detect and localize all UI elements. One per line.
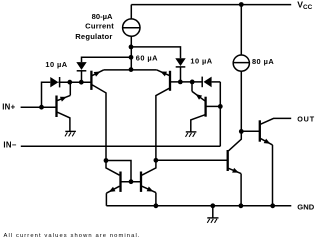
transistor Q8 base bar [259, 120, 261, 141]
transistor Q3 collector [156, 88, 169, 160]
transistor Q1 collector [57, 112, 70, 131]
svg-text:80-µA: 80-µA [92, 12, 113, 21]
wire IN+ to Q1 base [21, 106, 57, 108]
label IN- [3, 141, 16, 150]
ground rail symbol [207, 218, 218, 223]
node mirror base center [129, 179, 134, 184]
svg-text:10 µA: 10 µA [190, 57, 212, 66]
node Q8 base junction [239, 129, 244, 134]
wire CS2 stem top [240, 5, 242, 56]
transistor Q7 collector [229, 131, 242, 150]
node IN+ base junction [39, 105, 44, 110]
ground Q1 collector [65, 131, 76, 136]
label Vcc [297, 0, 312, 11]
node B 10uA-branch tap [129, 55, 134, 60]
current regulator CS1 80-uA [123, 19, 140, 36]
svg-text:IN+: IN+ [2, 103, 15, 112]
transistor Q5 base bar [119, 172, 121, 192]
node Q1-emitter junction [67, 80, 72, 85]
transistor Q4 collector [191, 115, 205, 132]
transistor Q8 emitter [261, 139, 273, 206]
label 60 uA [136, 53, 158, 62]
transistor Q8 collector [261, 118, 292, 124]
wire Q4 base [206, 105, 221, 107]
node mirror right [154, 158, 159, 163]
wire CS1 output bus [130, 36, 132, 69]
wire mirror base rail [120, 181, 141, 183]
svg-text:80 µA: 80 µA [252, 57, 274, 66]
transistor Q7 emitter [229, 168, 242, 206]
wire node B to D1 [82, 57, 132, 62]
transistor Q4 base bar [204, 97, 206, 117]
node Q8 emitter rail junction [270, 203, 275, 208]
transistor Q7 base bar [227, 150, 229, 171]
transistor Q5 collector [106, 161, 120, 176]
node D1-cathode junction [79, 80, 84, 85]
label 80-uA Current Regulator [75, 12, 114, 41]
node mirror left [104, 158, 109, 163]
wire IN- horizontal [21, 145, 221, 147]
transistor Q3 emitter [131, 70, 169, 76]
svg-text:VCC: VCC [297, 0, 312, 11]
svg-text:Current: Current [85, 21, 114, 30]
node A 10uA-branch tap [129, 45, 134, 50]
label 10 uA left [45, 60, 67, 69]
wire GND rail [106, 205, 291, 207]
wire IN- riser [219, 82, 221, 146]
transistor Q1 base bar [55, 96, 57, 118]
node Q6 emitter rail junction [154, 203, 159, 208]
svg-text:Regulator: Regulator [75, 32, 112, 41]
wire node A to D3 [131, 47, 181, 58]
node Q7 emitter rail junction [239, 203, 244, 208]
node IN- base junction [218, 104, 223, 109]
diode D1 10uA [76, 62, 86, 71]
transistor Q4 emitter [192, 82, 205, 101]
node C 60uA input-stage tap [129, 67, 134, 72]
transistor Q2 emitter [92, 70, 131, 77]
wire IN+ riser to D2 [42, 82, 51, 107]
wire D3 cathode to node E2 [180, 67, 182, 82]
label IN+ [2, 103, 15, 112]
svg-text:OUT: OUT [297, 115, 315, 124]
transistor Q5 emitter [106, 186, 119, 206]
label OUT [297, 115, 315, 124]
transistor Q6 emitter [142, 186, 156, 206]
wire mirror to Q7 base [156, 159, 228, 161]
transistor Q3 base bar [169, 71, 171, 91]
diode D3 10uA [175, 58, 185, 67]
transistor Q6 base bar [140, 172, 142, 192]
transistor Q6 collector [142, 160, 156, 175]
label 80 uA [252, 57, 274, 66]
label 10 uA right [190, 57, 212, 66]
wire Q8 base [241, 130, 259, 132]
wire gnd stem [212, 206, 214, 218]
diode D2 [50, 77, 59, 87]
transistor Q2 collector [92, 85, 106, 161]
svg-text:All current values shown are n: All current values shown are nominal. [4, 233, 141, 239]
wire node E1 base line [60, 81, 92, 83]
wire Vcc rail [131, 4, 291, 6]
note footnote [4, 233, 141, 239]
current source CS2 80-uA [233, 55, 249, 71]
node gnd-symbol junction [210, 203, 215, 208]
node D3-cathode junction [178, 80, 183, 85]
transistor Q1 emitter [57, 82, 70, 101]
wire CS2 to Q8 base [240, 71, 242, 131]
wire Q3 base line [170, 81, 202, 83]
wire mirror diode connection [106, 161, 131, 182]
label GND [297, 202, 314, 211]
node Q4-emitter junction [190, 80, 195, 85]
wire D1 cathode to node E1 [81, 71, 83, 82]
svg-text:60 µA: 60 µA [136, 53, 158, 62]
svg-text:GND: GND [297, 202, 314, 211]
svg-text:10 µA: 10 µA [45, 60, 67, 69]
current regulator CS1 stem top [130, 5, 132, 19]
svg-text:IN−: IN− [3, 141, 16, 150]
transistor Q2 base bar [90, 71, 92, 90]
node Vcc-rail junction [239, 2, 244, 7]
ground Q4 collector [186, 132, 197, 137]
diode D4 [202, 77, 220, 88]
